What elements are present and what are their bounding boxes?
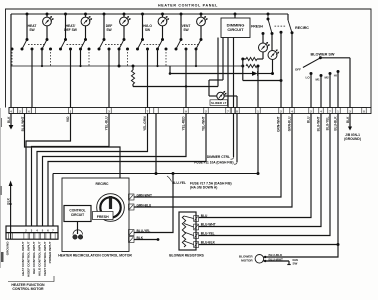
wire: dimming circuit feed [234,14,236,18]
svg-text:SW: SW [29,28,35,32]
valve: vacuum actuator [77,222,79,235]
svg-text:OFF: OFF [295,68,301,72]
svg-text:HEAT CONTROL INPUT: HEAT CONTROL INPUT [21,241,25,276]
blower resistor pin y=218.5 [194,216,199,222]
wire [209,79,223,81]
strip pin x=70.5 [68,108,72,114]
switch: VENT SW fixed contacts [165,48,168,51]
resistor: fresh lamp 1 [246,57,257,60]
svg-text:VENT CONTROL INPUT: VENT CONTROL INPUT [43,241,47,276]
svg-text:BLU-WHT: BLU-WHT [317,116,321,131]
strip pin x=292 [290,108,294,114]
svg-text:BLOWER SW: BLOWER SW [310,53,334,57]
wire: HI/LO SW output [147,49,149,108]
wire: blower common to strip [349,58,351,108]
svg-text:YEL-RED: YEL-RED [182,116,186,131]
svg-text:YEL-GRN: YEL-GRN [143,116,147,131]
svg-text:BLU-BLK: BLU-BLK [269,253,284,257]
junction [241,65,244,68]
wire: BLU-BLK blower [199,114,338,245]
wire: fuse 11 feed [236,114,238,163]
svg-text:GRN-BLU: GRN-BLU [137,203,152,207]
strip pin x=321 [319,108,323,114]
wire: HEAT/ DEF SW output [70,49,72,108]
wire: dimmer ctrl [233,114,235,158]
lamp: HEAT SW indicator [43,16,54,26]
wire: BLU-WHT blower [199,114,321,227]
strip pin x=281 [279,108,283,114]
strip pin x=24.5 [22,108,26,114]
svg-text:DEF CONTROL INPUT: DEF CONTROL INPUT [32,241,36,274]
svg-text:HEATER RECIRCULATION CONTROL M: HEATER RECIRCULATION CONTROL MOTOR [58,254,132,258]
connector pin 3 [29,233,33,240]
ground: panel BLK [10,114,12,126]
blower sw contact M1 [320,74,323,77]
wire [208,80,210,96]
junction [257,65,260,68]
svg-text:(GROUND): (GROUND) [344,137,361,141]
wire: BLK to J/B ground [349,114,351,127]
wire [236,96,238,108]
wire: RECIRC output to strip [291,33,293,108]
svg-text:BLU-BLK: BLU-BLK [201,240,216,244]
svg-text:M1: M1 [316,78,320,82]
wire: GRN-BLU recirc [134,114,292,208]
strip pin x=147.5 [145,108,149,114]
wire: top power bus [11,13,288,15]
wire: BLU-YEL to recirc motor [134,174,173,233]
resistor: fresh lamp 2 [246,64,257,67]
svg-text:CIRCUIT: CIRCUIT [71,213,84,217]
resistor: panel light resistor [131,70,134,84]
svg-text:BLU-WHT: BLU-WHT [201,222,216,226]
svg-text:GRN-BLU: GRN-BLU [288,116,292,131]
svg-text:BLK: BLK [346,116,350,123]
strip pin x=338 [336,108,340,114]
scan artifact marks on left edge [0,252,4,262]
connector pin 6 [46,233,50,240]
wire: slider lamp to strip [224,95,237,97]
connector pin 2 [24,233,28,240]
wire: BLU-WHT to ign sw [264,260,290,262]
switch: HEAT SW pole 1 [26,13,29,16]
junction: dimmer feed [169,72,172,75]
strip pin x=33.5 [31,108,35,114]
svg-text:GROUND: GROUND [5,241,9,256]
svg-text:RECIRC: RECIRC [96,182,110,186]
strip pin x=109 [107,108,111,114]
strip pin x=186 [184,108,188,114]
wire: fresh lamp1 feed [262,34,264,44]
connector: heater function control motor [6,226,58,233]
svg-text:H/DEF CONTROL INPUT: H/DEF CONTROL INPUT [26,241,30,277]
label: FUSE #11 hook [234,162,237,164]
lamp: HEAT/ DEF SW indicator [81,16,92,26]
wire: BLU-YEL blower [199,114,330,236]
box: CONTROL CIRCUIT [64,206,91,222]
svg-text:BLU-WHT: BLU-WHT [21,116,25,131]
wire: recirc BLK stub [134,239,158,241]
strip pin x=20 [18,108,22,114]
svg-text:BLU-WHT: BLU-WHT [269,257,284,261]
strip pin x=364 [362,108,366,114]
junction [241,58,244,61]
switch: FRESH [267,13,270,16]
switch: HI/LO SW pole 1 [141,13,144,16]
svg-text:YEL-BLU: YEL-BLU [105,116,109,131]
blower sw contact HI [337,70,340,73]
switch: DEF SW pole 1 [103,13,106,16]
svg-text:CONTROL MOTOR: CONTROL MOTOR [12,287,44,291]
svg-text:BLK: BLK [7,116,11,123]
svg-text:FUSE #11 10A (DASH F/B): FUSE #11 10A (DASH F/B) [194,161,233,165]
strip pin x=350 [348,108,352,114]
switch: VENT SW pole 2 with lamp [200,13,203,16]
wire: DEF SW output [108,49,110,108]
wire: bus tap [169,66,171,74]
svg-text:YEL-WHT: YEL-WHT [202,116,206,131]
heater control panel outline [6,9,372,108]
motor: blower motor [255,254,264,263]
svg-text:M2: M2 [325,76,329,80]
wire: GRN-WHT recirc [134,114,281,198]
wire: dimming circuit to lamp return [217,38,219,87]
svg-text:HI/LO CONTROL INPUT: HI/LO CONTROL INPUT [37,241,41,276]
switch: HEAT/ DEF SW fixed contacts [49,48,52,51]
wire [272,60,274,74]
wire: fresh lamp2 feed [271,34,273,51]
wire: dimmer ctrl to strip [233,38,235,108]
gang link HEAT SW (dashed) [28,44,45,46]
svg-text:CIRCUIT: CIRCUIT [227,27,244,32]
switch: HEAT/ DEF SW pole 1 [64,13,67,16]
svg-text:GRN-WHT: GRN-WHT [277,116,281,131]
junction [280,79,283,82]
junction: strip feed [155,172,158,175]
wire: FRESH output to strip [280,31,283,34]
wire: BLU-YEL power line (fuse 17) [257,114,259,174]
svg-text:HI: HI [334,74,337,78]
gang link FRESH-RECIRC (dashed) [275,25,286,27]
wire: dimming circuit to strip [227,38,229,108]
svg-text:BLU-YEL: BLU-YEL [137,229,151,233]
box: DIMMING CIRCUIT [221,18,250,38]
connector pin 1 [9,233,13,240]
gang link DEF SW (dashed) [105,44,122,46]
connector: panel edge strip [9,108,371,114]
junction: power line [257,172,260,175]
wire: YEL-RED control [43,114,187,227]
svg-text:LO: LO [306,76,311,80]
blower sw contact M2 [329,72,332,75]
lamp: FRESH indicator 1 [259,42,270,52]
wire: BLU blower [199,114,311,218]
switch: DEF SW fixed contacts [88,48,91,51]
svg-text:BLU: BLU [307,116,311,123]
switch: HEAT SW pole 2 with lamp [46,13,49,16]
junction: blower motor node [337,243,340,246]
gang link HI/LO SW (dashed) [144,44,161,46]
wire: BLU-WHT to recirc control [25,114,121,179]
blower sw contact LO [310,72,313,75]
svg-text:HEATER CONTROL PANEL: HEATER CONTROL PANEL [158,4,218,8]
wire: YEL-BLU control [32,114,110,227]
wire: panel ground drop [10,14,12,108]
wire: dimming circuit output [222,38,224,81]
svg-text:GRN-WHT: GRN-WHT [137,193,152,197]
svg-text:DEF SW: DEF SW [64,28,78,32]
switch: HEAT SW fixed contacts [11,48,14,51]
gang link VENT SW (dashed) [182,44,199,46]
strip pin x=237 [235,108,239,114]
svg-text:MOTOR: MOTOR [241,258,253,262]
svg-text:BLU-BLK: BLU-BLK [334,116,338,131]
gang link HEAT/ DEF SW (dashed) [67,44,84,46]
wire: left rail [242,59,244,81]
wire: fused feed x258 [257,66,259,108]
switch: VENT SW pole 1 [180,13,183,16]
wire: dimmer feed line [170,73,243,75]
wire [257,58,263,60]
svg-text:BLU-YEL: BLU-YEL [201,231,215,235]
lamp: DEF SW indicator [120,16,131,26]
strip pin x=29 [27,108,31,114]
svg-text:FRESH: FRESH [251,25,263,29]
wire [262,52,264,59]
wire: to slider lamp [209,95,217,97]
connector pin 4 [35,233,39,240]
wire [243,58,246,60]
junction [271,72,274,75]
strip pin x=258 [256,108,260,114]
strip pin x=311 [309,108,313,114]
wire: YEL-WHT control [48,114,206,227]
svg-text:BLK: BLK [7,197,11,204]
blower sw blade [303,58,321,68]
recirc motor pins [129,194,135,200]
svg-text:BLU-YEL: BLU-YEL [326,116,330,130]
svg-text:RECIRC: RECIRC [295,26,309,30]
wire: blower common [320,57,350,59]
bracket: heater function control motor [8,276,54,282]
box: SLIDER LT label [210,100,228,106]
box: FRESH label [93,212,114,220]
switch: HI/LO SW pole 2 with lamp [161,13,164,16]
switch: DEF SW pole 2 with lamp [123,13,126,16]
svg-text:BLOWER RESISTORS: BLOWER RESISTORS [169,254,204,258]
wire: VIO control [26,114,71,227]
connector pin 7 [51,233,55,240]
strip pin x=206 [204,108,208,114]
strip pin x=233.5 [231,108,235,114]
lamp: FRESH indicator 2 [268,50,279,60]
svg-text:BLU: BLU [201,214,208,218]
svg-text:SW: SW [293,262,298,266]
wire [258,73,273,75]
wire: y80 link [243,80,281,82]
wire: YEL-GRN control [37,114,148,227]
resistor: blower resistor element [182,216,185,247]
svg-text:VIO: VIO [66,116,70,122]
lamp: slider light [217,91,226,99]
strip pin x=156 [154,108,158,114]
junction: recirc power tap [172,172,175,175]
svg-text:DIMMER CTRL: DIMMER CTRL [207,155,230,159]
svg-text:SLIDER LT: SLIDER LT [211,101,226,105]
wire: lamp return line [133,86,218,88]
terminal [264,260,266,262]
svg-text:FRESH: FRESH [97,215,109,219]
strip pin x=15.5 [13,108,17,114]
box: blower resistors [179,212,196,250]
motor: recirc actuator [97,194,125,222]
switch: HEAT/ DEF SW pole 2 with lamp [84,13,87,16]
junction: lamp return [185,85,187,87]
box: heater recirculation control motor [62,178,129,252]
strip pin x=330 [328,108,332,114]
svg-text:(HA J/B DOWN A): (HA J/B DOWN A) [190,185,217,189]
lamp: VENT SW indicator [197,16,208,26]
blower resistor pin y=235.5 [194,233,199,239]
wire: lower bus [11,65,243,67]
terminal [264,256,266,258]
svg-text:POWER INPUT: POWER INPUT [48,241,52,263]
svg-text:SW: SW [106,28,112,32]
switch: HI/LO SW fixed contacts [126,48,129,51]
wire [257,65,258,67]
blower resistor pin y=227 [194,224,199,230]
strip pin x=11 [9,108,13,114]
wire: VENT SW output [185,49,187,108]
wire: HEAT SW output [31,49,33,108]
lamp: HI/LO SW indicator [158,16,169,26]
strip pin x=228 [226,108,230,114]
diode [243,73,252,75]
switch: RECIRC [287,14,289,20]
blower resistor pin y=244.5 [194,242,199,248]
connector pin 5 [40,233,44,240]
svg-text:BLU-YEL: BLU-YEL [172,181,186,185]
wire: ground stub with arrow [10,204,12,239]
svg-text:SW: SW [183,28,189,32]
wire: BLU-YEL feed from strip [155,114,157,174]
svg-text:SW: SW [145,28,151,32]
